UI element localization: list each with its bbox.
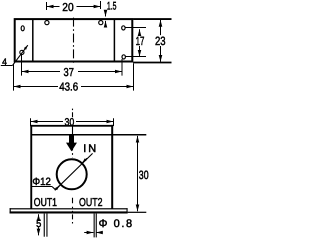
svg-text:OUT1: OUT1 (34, 197, 57, 209)
svg-text:4: 4 (2, 57, 7, 68)
svg-text:1.5: 1.5 (107, 1, 117, 13)
svg-text:Φ 0.8: Φ 0.8 (99, 218, 134, 230)
svg-text:30: 30 (139, 168, 149, 182)
svg-text:OUT2: OUT2 (79, 197, 103, 209)
svg-text:17: 17 (136, 34, 145, 48)
svg-text:30: 30 (65, 116, 75, 128)
svg-text:5: 5 (36, 218, 41, 230)
svg-text:IN: IN (83, 143, 98, 155)
svg-text:20: 20 (62, 2, 73, 14)
svg-text:37: 37 (64, 67, 74, 79)
svg-text:23: 23 (155, 34, 166, 48)
svg-text:43.6: 43.6 (59, 82, 78, 94)
